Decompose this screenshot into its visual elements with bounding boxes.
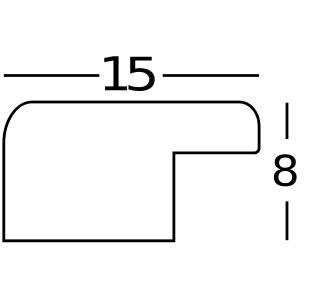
width dimension label 15 : digit 5 (128, 57, 154, 91)
width dimension line right segment (163, 74, 259, 77)
height dimension line upper segment (286, 103, 289, 139)
width dimension label 15 : digit 1 (104, 56, 127, 90)
width dimension line left segment (4, 74, 100, 77)
moulding profile outline (4, 102, 259, 241)
height dimension line lower segment (286, 201, 289, 240)
height dimension label 8 (274, 154, 297, 186)
